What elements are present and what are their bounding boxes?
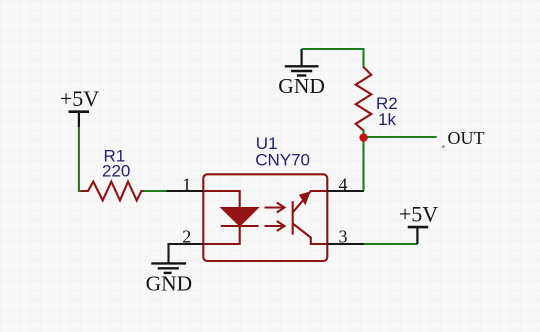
wire pin 3 to +5V (right)	[364, 243, 417, 245]
pin 4	[327, 190, 364, 192]
svg-text:+5V: +5V	[399, 202, 438, 227]
LED emitter diode inside U1	[203, 191, 258, 244]
svg-text:CNY70: CNY70	[255, 151, 310, 170]
wire junction to OUT	[364, 136, 437, 138]
power +5V (right)	[399, 202, 438, 244]
svg-text:3: 3	[339, 227, 348, 247]
no-ERC marker	[442, 145, 446, 149]
svg-text:+5V: +5V	[60, 86, 99, 111]
svg-text:1k: 1k	[378, 110, 396, 129]
wire R1 to pin 1	[144, 190, 168, 192]
svg-text:OUT: OUT	[448, 128, 485, 148]
svg-text:GND: GND	[146, 272, 193, 296]
ground GND (left)	[146, 263, 193, 295]
wire GND (top) to R2	[302, 49, 364, 68]
phototransistor inside U1	[293, 191, 328, 244]
svg-text:GND: GND	[278, 74, 325, 98]
pin 1	[167, 190, 204, 192]
ground GND (top)	[278, 49, 325, 98]
resistor R2	[356, 67, 372, 131]
pin 2	[169, 243, 204, 245]
wire +5V to R1	[79, 127, 82, 191]
optocoupler U1 body	[203, 174, 327, 261]
wire pin 2 to ground	[167, 243, 169, 263]
light coupling arrows	[265, 203, 285, 232]
junction node	[359, 133, 367, 141]
pin 3	[327, 243, 364, 245]
wire R2 to junction	[362, 130, 364, 139]
wire junction to pin 4	[362, 137, 364, 191]
svg-text:4: 4	[339, 174, 348, 194]
svg-text:1: 1	[182, 175, 191, 195]
svg-text:2: 2	[182, 227, 191, 247]
resistor R1	[81, 182, 144, 201]
svg-text:220: 220	[102, 162, 130, 181]
power +5V (left)	[60, 86, 99, 128]
